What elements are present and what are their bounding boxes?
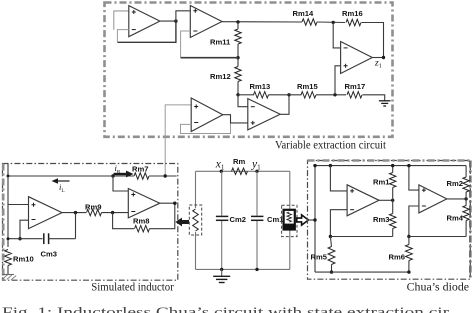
resistor Rm11: [235, 29, 241, 44]
wire node to U2 + input: [176, 11, 190, 21]
node C1 - rail: [329, 235, 332, 238]
resistor Rm15: [301, 92, 316, 98]
svg-text:Fig. 1: Inductorless Chua’s ci: Fig. 1: Inductorless Chua’s circuit with…: [2, 306, 449, 313]
box Chua's diode thick edges: [308, 159, 471, 162]
node Cm3 left: [18, 237, 21, 240]
wire Cm1 branch: [256, 171, 258, 215]
wire C2 + input: [409, 166, 419, 191]
node A1 out: [74, 211, 77, 214]
op-amp U3: [191, 98, 223, 132]
resistor Rm12: [235, 67, 241, 82]
wire port to left wire: [308, 219, 315, 221]
capacitor Cm2: [216, 215, 228, 217]
wire middle bottom rail: [196, 268, 290, 270]
wire C2 - input: [409, 206, 419, 237]
op-amp A1: [29, 197, 63, 229]
node U4 out: [287, 93, 290, 96]
resistor Rm4: [463, 206, 469, 221]
resistor Rm10: [5, 250, 12, 266]
wire U5 output: [372, 57, 383, 59]
wire Chua bottom rail: [315, 271, 409, 273]
svg-text:Simulated inductor: Simulated inductor: [91, 280, 174, 294]
node Rm12 bottom: [236, 93, 239, 96]
svg-text:Rm10: Rm10: [13, 255, 34, 264]
node U2 feedback: [236, 56, 239, 59]
wire Cm3 rail: [8, 238, 43, 240]
op-amp C1: [347, 185, 379, 216]
node top-left rail: [7, 175, 10, 178]
svg-text:Rm4: Rm4: [447, 214, 464, 223]
node Rm1 top: [391, 164, 394, 167]
wire A1 output: [62, 212, 86, 214]
resistor Rm14: [302, 19, 317, 25]
ground middle: [221, 269, 223, 276]
wire Cm2 branch: [221, 171, 223, 215]
svg-text:Rm1: Rm1: [373, 178, 390, 187]
resistor Rm16: [346, 19, 361, 25]
svg-text:Rm15: Rm15: [297, 82, 318, 91]
node Rm14-Rm16: [332, 21, 335, 24]
wire to U5 + input: [335, 66, 341, 95]
capacitor Cm1: [251, 215, 263, 217]
node C2 + tap: [407, 164, 410, 167]
box Variable extraction circuit: [105, 3, 393, 137]
svg-text:Rm16: Rm16: [342, 9, 363, 18]
nonlinear resistor box: [284, 210, 295, 230]
svg-text:Rm8: Rm8: [133, 217, 149, 226]
port arrow into inductor: [175, 218, 189, 227]
node Rm15 right: [333, 93, 336, 96]
wire middle top rail: [196, 170, 290, 172]
port arrow into Chua diode: [297, 215, 309, 225]
current arrow iL: [57, 180, 70, 182]
resistor Rm7: [134, 173, 149, 179]
wire C2 output: [447, 198, 466, 200]
node Cm1 bottom: [255, 268, 258, 271]
svg-text:Rm12: Rm12: [210, 72, 231, 81]
svg-text:Rm2: Rm2: [447, 179, 463, 188]
node C2 out: [464, 197, 467, 200]
node Rm7 left: [111, 174, 114, 177]
port dashed box right: [282, 205, 297, 236]
node Rm7 right: [164, 174, 167, 177]
op-amp U5: [341, 42, 373, 74]
resistor Rm3: [390, 214, 396, 229]
wire U2 feedback loop: [181, 31, 191, 58]
wire node to U5 - input: [333, 22, 340, 48]
port dashed box left: [189, 205, 201, 235]
wire U3 feedback loop: [181, 115, 231, 134]
wire op-amp U3 + input from inductor: [165, 105, 191, 176]
resistor Rm5: [328, 247, 335, 265]
node U5 out z1: [382, 56, 385, 59]
resistor Rm6: [406, 245, 413, 261]
wire A1 - input: [20, 220, 29, 239]
wire Chua top rail: [315, 165, 466, 167]
svg-text:Rm9: Rm9: [85, 203, 101, 212]
wire node to U4 - input: [238, 95, 248, 107]
resistor Rm1: [390, 173, 396, 188]
svg-text:Rm5: Rm5: [311, 253, 328, 262]
wire U3 output to U4 + input: [223, 115, 248, 123]
wire Rm8 branch down: [113, 213, 134, 229]
node Chua left top: [313, 164, 316, 167]
wire U4 output up to Rm13 rail: [280, 95, 289, 115]
box Simulated inductor: [3, 164, 178, 281]
svg-text:Cm2: Cm2: [230, 215, 246, 224]
wire Rm8 to output node: [150, 203, 175, 229]
resistor Rm2: [463, 177, 469, 192]
op-amp C2: [419, 185, 447, 213]
svg-text:Rm14: Rm14: [293, 9, 314, 18]
node C1 + tap: [329, 164, 332, 167]
wire Rm13 rail: [238, 94, 254, 96]
node Rm11 top: [236, 20, 239, 23]
svg-text:Rm: Rm: [233, 157, 245, 166]
node port: [313, 218, 316, 221]
op-amp A2: [128, 189, 160, 218]
node x1: [220, 170, 223, 173]
op-amp U2: [190, 6, 222, 38]
svg-text:Rm13: Rm13: [250, 82, 271, 91]
ground top box: [379, 100, 391, 102]
node Cm3 rail left: [7, 237, 10, 240]
wire U1 feedback loop: [117, 21, 175, 42]
svg-text:Cm3: Cm3: [41, 250, 57, 259]
wire inductor top rail: [8, 175, 134, 177]
wire minus rail 1: [330, 236, 392, 238]
wire left rail stub to border: [7, 164, 9, 177]
wire A1 + input: [8, 204, 29, 206]
wire middle left branch: [195, 171, 197, 208]
wire Rm16 to U5 output: [362, 23, 384, 58]
node C1 out: [391, 199, 394, 202]
svg-text:Rm3: Rm3: [373, 215, 389, 224]
svg-text:Variable extraction circuit: Variable extraction circuit: [275, 138, 387, 152]
wire Chua left wire: [314, 166, 316, 273]
svg-text:Rm6: Rm6: [389, 253, 405, 262]
node Cm2 bottom: [220, 268, 223, 271]
wire U2 output to top rail: [222, 21, 302, 23]
node y1: [255, 170, 258, 173]
wire op-amp U1 + input with stub: [114, 11, 129, 30]
wire Rm17 to ground: [363, 95, 385, 101]
resistor Rm17: [347, 92, 362, 98]
wire C1 + input: [330, 166, 347, 191]
node U1 out: [174, 19, 177, 22]
wire A2 output: [160, 202, 177, 204]
wire U1 output to node: [160, 20, 176, 22]
svg-text:Chua’s diode: Chua’s diode: [407, 279, 470, 293]
current arrow iR: [114, 173, 128, 175]
node C2 - rail: [407, 235, 410, 238]
wire A1 out down to Cm3 rail: [75, 213, 77, 239]
node A2 - branch: [111, 211, 114, 214]
resistor Rm: [232, 168, 248, 174]
resistor Rm8: [135, 226, 150, 232]
wire minus rail 2: [409, 236, 466, 238]
wire C1 - input: [330, 210, 347, 237]
ground simulated inductor: [2, 274, 14, 276]
wire C1 output: [379, 199, 393, 201]
svg-text:Rm11: Rm11: [210, 38, 231, 47]
svg-text:Rm17: Rm17: [345, 82, 366, 91]
op-amp U1: [129, 6, 160, 37]
wire middle right branch: [289, 171, 291, 210]
resistor Rm13: [254, 92, 269, 98]
wire A2 + input from top rail: [113, 176, 128, 191]
wire left rail down: [7, 176, 9, 247]
wire Rm9 to A2 - input: [102, 212, 129, 214]
op-amp U4: [248, 99, 280, 130]
node Rm6 bottom: [407, 270, 410, 273]
node A2 out: [173, 202, 176, 205]
resistor Rm9: [87, 209, 102, 215]
box Chua's diode: [308, 161, 471, 280]
port impedance squiggle: [193, 209, 199, 231]
capacitor Cm3: [43, 233, 45, 244]
box Simulated inductor left thick edge: [2, 164, 5, 281]
node Rm5 bottom: [330, 270, 333, 273]
